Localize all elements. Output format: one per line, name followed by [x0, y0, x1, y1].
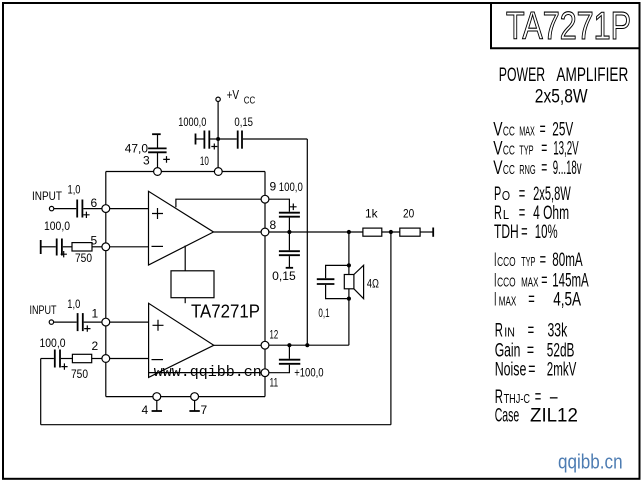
svg-text:1,0: 1,0 [67, 297, 80, 311]
pin 11 [261, 369, 269, 377]
svg-text:8: 8 [270, 218, 277, 232]
svg-text:CCO: CCO [497, 254, 515, 269]
wire right bus pin8-pin12 [264, 236, 266, 341]
svg-text:P: P [494, 184, 501, 205]
input 2 terminal [49, 320, 53, 324]
wire pin5 to opamp1 - [110, 246, 149, 248]
capacitor 0,15 below pin8 line [272, 232, 300, 283]
wire: right drop from top bus to pin 9 [264, 172, 266, 196]
svg-text:=: = [527, 340, 534, 361]
wire 20 to output terminal [420, 231, 433, 233]
svg-text:=: = [519, 203, 526, 224]
svg-text:=: = [541, 139, 547, 160]
capacitor 1,0 ch1 [68, 182, 102, 218]
svg-text:ZIL12: ZIL12 [530, 406, 578, 427]
wire pin11 to opamp2 edge (watermark wire) [149, 372, 261, 374]
SPEC TEXT COLUMN [493, 64, 628, 427]
capacitor 100,0 ch2 [40, 336, 73, 370]
svg-text:1,0: 1,0 [68, 182, 81, 196]
svg-text:52dB: 52dB [547, 340, 575, 361]
resistor 1k [363, 207, 382, 237]
svg-text:TYP: TYP [521, 254, 535, 269]
node 10 [214, 168, 222, 176]
svg-text:33k: 33k [548, 321, 568, 342]
junction dot 1k/20 [389, 230, 393, 234]
output terminal bar [432, 228, 434, 237]
svg-text:9...18v: 9...18v [553, 158, 582, 179]
svg-text:I: I [494, 290, 497, 311]
resistor 20 [400, 207, 420, 237]
svg-text:CC: CC [503, 143, 515, 158]
node 3 [154, 168, 162, 176]
svg-text:TYP: TYP [519, 143, 533, 158]
svg-text:0,1: 0,1 [318, 306, 329, 320]
svg-text:145mA: 145mA [552, 270, 589, 291]
svg-text:2x5,8W: 2x5,8W [535, 86, 588, 107]
capacitor 0,1 parallel branch [317, 265, 349, 320]
svg-text:=: = [528, 290, 535, 311]
svg-text:=: = [541, 158, 547, 179]
pin 4 ground [142, 393, 163, 417]
svg-text:12: 12 [270, 328, 279, 342]
wire: left vertical bus x=105.8 [105, 172, 107, 397]
svg-text:TA7271P: TA7271P [506, 5, 631, 48]
wire pin2 to opamp2 - [110, 358, 149, 360]
svg-text:100,0: 100,0 [279, 180, 303, 194]
wire pin6 to opamp1 + [110, 208, 149, 210]
wire pin 8 line to resistor 1k [269, 231, 363, 233]
svg-text:=: = [521, 222, 528, 243]
svg-text:4,5A: 4,5A [553, 290, 581, 311]
svg-text:6: 6 [91, 196, 98, 210]
wire input1 to cap [54, 208, 77, 210]
svg-text:3: 3 [143, 154, 150, 168]
svg-text:=: = [528, 321, 535, 342]
junction dot speaker top [347, 263, 351, 267]
wire right bus pin12-pin11 [264, 349, 266, 369]
svg-text:=: = [528, 360, 535, 381]
wire bottom feedback rail [41, 424, 391, 426]
svg-text:CC: CC [244, 94, 256, 106]
wire: long vertical from 0,15 down to pin12 line [306, 139, 308, 345]
svg-text:+100,0: +100,0 [294, 365, 324, 379]
svg-text:www.qqibb.cn: www.qqibb.cn [154, 364, 262, 381]
pin 6 [102, 205, 110, 213]
capacitor 47,0 [125, 134, 170, 167]
svg-text:MAX: MAX [521, 274, 539, 289]
wire opamp2 output to pin 12 [214, 344, 261, 346]
svg-text:AMPLIFIER: AMPLIFIER [556, 64, 628, 86]
svg-text:4: 4 [142, 403, 149, 417]
wire: pin11 drop to ground bus [264, 377, 266, 397]
wire right bus pin9-pin8 [264, 203, 266, 228]
svg-text:11: 11 [270, 376, 279, 390]
svg-text:20: 20 [403, 207, 414, 221]
svg-text:0,15: 0,15 [234, 115, 253, 129]
svg-text:10: 10 [200, 154, 209, 168]
title box [491, 3, 640, 48]
junction dot vcc drop on pin12 line [305, 343, 309, 347]
capacitor 100,0 ch1 with open terminal [41, 219, 72, 257]
svg-text:Gain: Gain [495, 340, 521, 361]
junction dot speaker bottom [347, 297, 351, 301]
wire opamp1 output to pin 8 [214, 231, 262, 233]
svg-text:TDH: TDH [494, 222, 519, 243]
pin 7 ground [189, 393, 207, 417]
pin 12 [261, 341, 269, 349]
svg-text:IN: IN [504, 325, 515, 340]
wire feedback pin9 to opamp1 [176, 199, 261, 207]
svg-text:THJ-C: THJ-C [504, 391, 530, 406]
svg-text:INPUT: INPUT [32, 189, 63, 203]
wire: ground bus y=396.6 [106, 396, 265, 398]
wire pin12 line [269, 344, 349, 346]
wire left feedback rise [40, 359, 42, 425]
pin 1 [102, 318, 110, 326]
svg-text:2x5,8W: 2x5,8W [533, 184, 571, 205]
svg-text:0,15: 0,15 [272, 269, 296, 283]
svg-text:R: R [495, 321, 503, 342]
capacitor 100,0 bottom right [269, 345, 324, 379]
svg-text:750: 750 [71, 367, 88, 381]
svg-text:+V: +V [227, 87, 240, 102]
node junction at Vcc rail [216, 137, 220, 141]
svg-text:=: = [540, 250, 546, 271]
svg-text:INPUT: INPUT [30, 303, 58, 317]
resistor 750 ch1 [72, 243, 102, 265]
wire: Vcc vertical to node 10 [217, 102, 219, 168]
svg-text:1000,0: 1000,0 [178, 115, 206, 129]
svg-text:2: 2 [92, 339, 99, 353]
svg-text:5: 5 [91, 234, 98, 248]
svg-text:750: 750 [75, 251, 92, 265]
svg-text:100,0: 100,0 [44, 219, 70, 233]
junction dot speaker branch [347, 230, 351, 234]
junction dot cap100 bottom right [287, 343, 291, 347]
op-amp U1a triangle [149, 191, 214, 265]
svg-text:O: O [502, 188, 510, 203]
svg-text:V: V [493, 119, 503, 140]
capacitor 0,15 top [219, 115, 307, 149]
svg-text:V: V [493, 139, 503, 160]
junction dot 100,0/0,15 on pin8 line [287, 230, 291, 234]
svg-text:R: R [494, 203, 502, 224]
svg-text:Noise: Noise [495, 360, 527, 381]
svg-text:CCO: CCO [497, 274, 515, 289]
svg-text:4Ω: 4Ω [367, 276, 379, 290]
svg-text:1k: 1k [365, 207, 379, 221]
svg-text:POWER: POWER [499, 64, 545, 86]
wire speaker column [348, 232, 350, 345]
IC block rectangle [171, 246, 214, 304]
wire 1k to 20 [382, 231, 400, 233]
svg-text:L: L [503, 207, 509, 222]
svg-text:80mA: 80mA [552, 250, 583, 271]
svg-text:2mkV: 2mkV [547, 360, 577, 381]
svg-text:V: V [493, 158, 503, 179]
svg-text:4 Ohm: 4 Ohm [533, 203, 569, 224]
svg-text:9: 9 [270, 179, 277, 193]
svg-text:MAX: MAX [519, 123, 535, 138]
svg-text:TA7271P: TA7271P [191, 301, 260, 322]
svg-text:10%: 10% [535, 222, 558, 243]
svg-text:CC: CC [503, 162, 515, 177]
wire: top bus node3-node10 y=171.5 [106, 171, 265, 173]
capacitor 1000,0 [178, 115, 217, 150]
svg-text:qqibb.cn: qqibb.cn [558, 452, 623, 474]
svg-text:100,0: 100,0 [40, 336, 66, 350]
wire input2 to cap [54, 321, 77, 323]
resistor 750 ch2 [71, 354, 102, 381]
input 1 terminal [49, 206, 53, 210]
svg-text:13,2V: 13,2V [553, 139, 579, 160]
svg-text:=: = [519, 184, 526, 205]
capacitor 1,0 ch2 [67, 297, 102, 332]
svg-text:MAX: MAX [499, 294, 517, 309]
svg-text:=: = [541, 270, 547, 291]
pin 9 [261, 195, 269, 203]
svg-text:CC: CC [503, 123, 515, 138]
wire from 1k/20 junction down [390, 232, 392, 425]
capacitor 100,0 at pin 9 [269, 180, 303, 232]
svg-text:RNG: RNG [519, 162, 536, 177]
svg-text:25V: 25V [552, 119, 573, 140]
wire pin1 to opamp2 + [110, 321, 149, 323]
svg-text:7: 7 [201, 403, 208, 417]
speaker 4ohm [344, 265, 379, 298]
pin 8 [261, 228, 269, 236]
power terminal +Vcc [216, 97, 220, 101]
pin 5 [102, 243, 110, 251]
svg-text:=: = [540, 119, 546, 140]
pin 2 [102, 355, 110, 363]
svg-text:1: 1 [92, 307, 99, 321]
op-amp U1b triangle [149, 303, 214, 377]
svg-text:Case: Case [495, 406, 520, 427]
